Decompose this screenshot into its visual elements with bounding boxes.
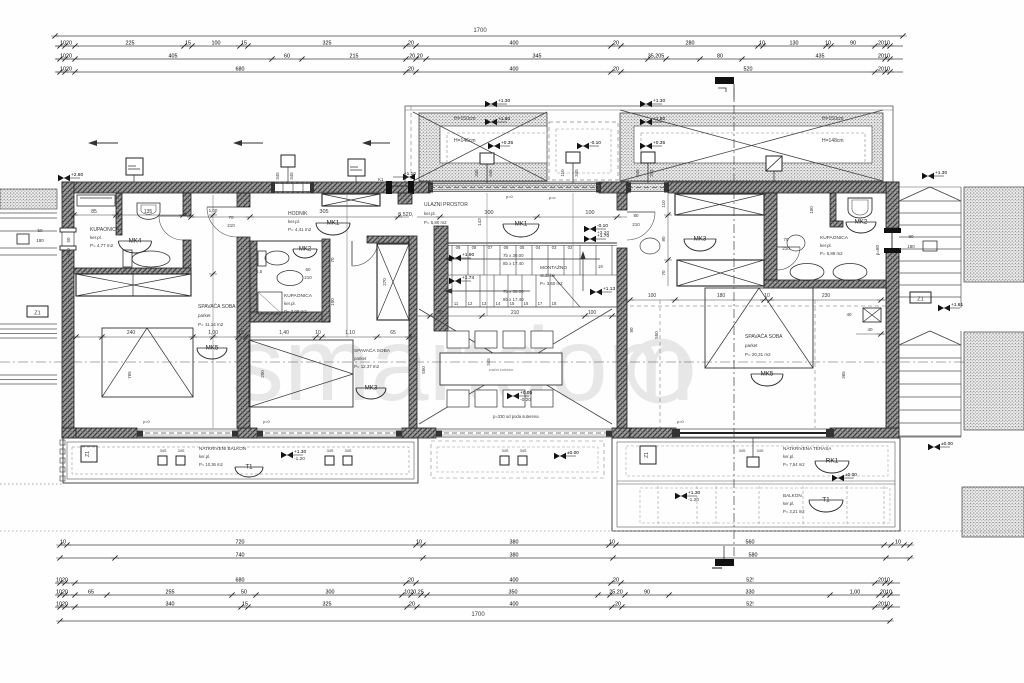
arrow west 2 xyxy=(233,140,263,146)
svg-text:HODNIK: HODNIK xyxy=(288,211,308,217)
svg-text:34S: 34S xyxy=(520,449,527,453)
svg-text:345: 345 xyxy=(275,172,280,180)
svg-text:19: 19 xyxy=(598,264,603,269)
svg-text:100: 100 xyxy=(585,210,594,216)
svg-text:+1.30: +1.30 xyxy=(653,98,665,104)
bedroom3 dim line xyxy=(626,293,886,303)
svg-text:80: 80 xyxy=(661,236,666,242)
svg-text:210: 210 xyxy=(782,246,790,251)
left neighbour hatched band xyxy=(0,189,57,209)
svg-text:10: 10 xyxy=(315,330,321,336)
MK5 bowl left xyxy=(197,345,227,360)
svg-text:40: 40 xyxy=(846,312,852,317)
svg-text:15: 15 xyxy=(238,330,244,336)
door W5 arc xyxy=(627,212,660,254)
svg-text:34S: 34S xyxy=(178,449,185,453)
svg-text:20: 20 xyxy=(613,577,619,583)
svg-text:90: 90 xyxy=(644,589,650,595)
svg-text:34S: 34S xyxy=(502,449,509,453)
svg-text:P= 4,41 m2: P= 4,41 m2 xyxy=(288,227,312,232)
floor drain box xyxy=(863,308,881,322)
svg-text:parket: parket xyxy=(745,343,758,348)
wall right xyxy=(886,182,899,438)
svg-text:P= 10,36 m2: P= 10,36 m2 xyxy=(199,462,224,467)
svg-text:400: 400 xyxy=(510,66,519,72)
svg-text:10: 10 xyxy=(895,539,901,545)
bed 2 xyxy=(249,340,353,407)
svg-text:1020: 1020 xyxy=(60,53,72,59)
svg-text:8b x 17.40: 8b x 17.40 xyxy=(503,261,524,266)
middle posts xyxy=(500,449,527,465)
right stairs flight 2 xyxy=(899,331,961,437)
roof middle dashed panel xyxy=(549,122,618,180)
svg-text:550: 550 xyxy=(421,366,426,374)
bathroom mid toilet xyxy=(258,251,289,266)
bathroom mid labels xyxy=(284,293,313,314)
svg-text:7b x 30.00: 7b x 30.00 xyxy=(503,289,524,294)
svg-text:200: 200 xyxy=(260,370,265,378)
svg-text:680: 680 xyxy=(236,66,245,72)
RK1 bowl xyxy=(815,458,849,474)
wardrobe right bottom xyxy=(677,260,764,286)
extension line x573 xyxy=(572,193,574,307)
svg-text:+1.70: +1.70 xyxy=(597,233,609,239)
svg-text:P= 11,14 m2: P= 11,14 m2 xyxy=(198,322,224,327)
svg-text:100: 100 xyxy=(809,206,814,214)
svg-text:60: 60 xyxy=(305,267,311,272)
guide dashed x660 xyxy=(659,300,661,428)
svg-text:52!: 52! xyxy=(746,577,754,583)
MK3 bowl bedroom2 xyxy=(356,385,386,400)
toilet nook partition xyxy=(830,193,843,227)
svg-text:80: 80 xyxy=(629,327,634,333)
left neighbour lines 3 xyxy=(0,375,57,384)
arrow west 3 xyxy=(362,140,390,146)
svg-text:34S: 34S xyxy=(327,449,334,453)
svg-text:04: 04 xyxy=(536,245,541,250)
svg-text:680: 680 xyxy=(236,577,245,583)
svg-text:zračni kolektor: zračni kolektor xyxy=(489,368,514,372)
bathroom mid bottom wall xyxy=(250,312,330,322)
svg-text:8b x 17.40: 8b x 17.40 xyxy=(503,297,524,302)
svg-text:06: 06 xyxy=(504,245,509,250)
svg-text:+1.80: +1.80 xyxy=(498,116,510,122)
svg-text:p=80: p=80 xyxy=(875,244,880,255)
T1 bowl balcony left xyxy=(235,465,263,478)
svg-text:325: 325 xyxy=(323,601,332,607)
svg-text:17: 17 xyxy=(538,301,543,306)
svg-text:1,10: 1,10 xyxy=(345,330,355,336)
svg-text:p=0: p=0 xyxy=(506,194,514,199)
svg-text:±0.00: ±0.00 xyxy=(567,450,579,456)
svg-text:10: 10 xyxy=(609,539,615,545)
roof elevation markers xyxy=(485,98,510,107)
svg-text:p=0: p=0 xyxy=(143,419,151,424)
svg-text:8,520,: 8,520, xyxy=(398,212,414,218)
svg-text:T1: T1 xyxy=(822,497,830,504)
svg-text:MK2: MK2 xyxy=(299,247,312,253)
svg-text:K1: K1 xyxy=(378,177,384,182)
svg-text:400: 400 xyxy=(510,577,519,583)
svg-text:345: 345 xyxy=(533,53,542,59)
svg-text:230: 230 xyxy=(822,293,831,299)
right neighbour block 1 xyxy=(964,187,1024,282)
svg-text:40: 40 xyxy=(867,327,873,332)
MK3 bowl right xyxy=(684,236,716,252)
svg-text:+1.13: +1.13 xyxy=(603,286,615,292)
svg-text:±0.00: ±0.00 xyxy=(845,472,857,478)
dotted separation line xyxy=(0,530,1024,532)
svg-text:100: 100 xyxy=(588,310,597,316)
door corridor to bedroom2 xyxy=(352,241,378,266)
bathroom1 sink xyxy=(137,203,160,219)
svg-text:20: 20 xyxy=(615,601,621,607)
right wardrobe dims xyxy=(661,194,672,286)
svg-text:parket: parket xyxy=(354,356,367,361)
bathroom mid sink xyxy=(277,271,303,286)
svg-text:MK1: MK1 xyxy=(515,221,528,228)
svg-text:210: 210 xyxy=(632,222,640,227)
bottom terrace door xyxy=(672,429,834,437)
balcony left outline xyxy=(63,438,418,483)
svg-text:300: 300 xyxy=(326,589,335,595)
bathroom right bottom wall xyxy=(764,280,886,288)
guide dashed x815 xyxy=(814,300,816,428)
MK1 bowl corridor xyxy=(316,220,350,236)
svg-text:p=330 od poda suterena: p=330 od poda suterena xyxy=(493,414,539,419)
left dotted line low xyxy=(0,483,62,485)
svg-text:70: 70 xyxy=(228,215,234,220)
svg-text:135: 135 xyxy=(144,209,153,215)
terrace dashed dividers xyxy=(640,486,890,525)
svg-text:H=146cm: H=146cm xyxy=(454,138,476,144)
section cut marker bottom xyxy=(712,546,734,568)
svg-text:BALKON: BALKON xyxy=(783,493,802,498)
svg-text:stubište: stubište xyxy=(540,273,556,278)
svg-text:345: 345 xyxy=(649,169,654,177)
bathroom1 door arc xyxy=(159,216,183,240)
chairs bottom xyxy=(447,390,553,407)
balcony left edge posts xyxy=(60,440,65,481)
svg-text:ker.pl.: ker.pl. xyxy=(820,243,832,248)
svg-text:1700: 1700 xyxy=(471,612,485,618)
bed 1 xyxy=(102,328,193,397)
svg-text:2010: 2010 xyxy=(878,40,890,46)
T1 bowl balkon xyxy=(809,497,843,513)
window top small xyxy=(271,183,314,193)
svg-text:-0.10: -0.10 xyxy=(590,140,601,146)
bathroom mid left wall xyxy=(250,241,257,322)
svg-text:18: 18 xyxy=(552,301,557,306)
svg-text:765: 765 xyxy=(127,371,132,379)
svg-text:550: 550 xyxy=(654,331,659,339)
balcony left posts 1 xyxy=(158,449,185,465)
roof window box with flag xyxy=(766,156,782,183)
svg-text:1020,25: 1020,25 xyxy=(404,589,424,595)
section line vertical xyxy=(733,88,735,556)
terrace labels xyxy=(783,446,832,467)
dining table xyxy=(440,353,562,385)
svg-text:ker.pl.: ker.pl. xyxy=(199,454,210,459)
toilet right xyxy=(848,198,872,218)
svg-text:+1.80: +1.80 xyxy=(653,116,665,122)
svg-text:14: 14 xyxy=(496,301,501,306)
svg-text:580: 580 xyxy=(749,552,758,558)
bathroom mid right wall xyxy=(322,239,330,322)
wardrobe right top xyxy=(675,194,764,215)
door right bath arc xyxy=(777,235,805,270)
wall bottom with windows xyxy=(62,428,899,438)
svg-text:225: 225 xyxy=(126,40,135,46)
bathroom1 right wall xyxy=(183,193,191,274)
balkon labels xyxy=(783,493,805,514)
svg-text:210: 210 xyxy=(511,310,520,316)
door right wall xyxy=(884,228,901,253)
svg-text:143: 143 xyxy=(477,218,482,226)
svg-text:+1.90: +1.90 xyxy=(462,252,474,258)
corridor labels xyxy=(288,211,312,232)
svg-text:P= 3,08 m2: P= 3,08 m2 xyxy=(284,309,307,314)
svg-text:H=150cm: H=150cm xyxy=(822,116,844,122)
svg-text:20: 20 xyxy=(408,66,414,72)
right neighbour block 2 xyxy=(964,332,1024,430)
arrow west 1 xyxy=(88,140,118,146)
svg-text:ker.pl.: ker.pl. xyxy=(783,501,794,506)
svg-text:7b x 30.00: 7b x 30.00 xyxy=(503,253,524,258)
svg-text:215: 215 xyxy=(350,53,359,59)
roof area outer outline xyxy=(405,106,893,182)
svg-text:70: 70 xyxy=(661,270,666,276)
svg-text:80: 80 xyxy=(717,53,723,59)
roof drain box 1 xyxy=(474,153,494,183)
svg-text:20: 20 xyxy=(409,601,415,607)
svg-text:P= 5,88 m2: P= 5,88 m2 xyxy=(820,251,843,256)
svg-text:210: 210 xyxy=(227,223,235,228)
bathroom1 dim 85/135 xyxy=(70,209,187,218)
svg-text:T1: T1 xyxy=(245,465,253,471)
svg-text:65: 65 xyxy=(88,589,94,595)
svg-text:MK5: MK5 xyxy=(206,345,219,352)
bedroom2 labels xyxy=(354,347,391,369)
bedroom3 labels xyxy=(745,333,783,357)
svg-text:34S: 34S xyxy=(739,449,746,453)
watermark smartdom xyxy=(232,307,694,423)
svg-text:325: 325 xyxy=(323,40,332,46)
window top 2 xyxy=(626,183,669,193)
svg-text:2010: 2010 xyxy=(878,66,890,72)
svg-text:90: 90 xyxy=(437,310,443,316)
svg-text:Z1: Z1 xyxy=(34,311,40,317)
svg-text:15: 15 xyxy=(241,40,247,46)
bathroom mid top line xyxy=(257,240,322,242)
bathroom1 bottom wall xyxy=(74,268,191,274)
svg-text:300: 300 xyxy=(484,210,493,216)
door to bedroom1 xyxy=(207,207,237,237)
svg-text:380: 380 xyxy=(510,552,519,558)
Z1 box terrace xyxy=(640,446,656,464)
svg-text:KUPAONICA: KUPAONICA xyxy=(90,227,120,233)
terrace right outline xyxy=(612,438,900,531)
svg-text:34S: 34S xyxy=(160,449,167,453)
stair dim line xyxy=(417,310,617,319)
svg-text:1020: 1020 xyxy=(60,40,72,46)
svg-text:07: 07 xyxy=(488,245,493,250)
svg-text:80: 80 xyxy=(633,213,639,218)
svg-text:1020: 1020 xyxy=(56,577,68,583)
wall W1 bedroom1/bedroom2 xyxy=(237,193,250,428)
svg-text:400: 400 xyxy=(510,40,519,46)
bathroom1 labels xyxy=(90,227,120,248)
svg-text:60: 60 xyxy=(284,53,290,59)
guide line x213 xyxy=(209,195,217,428)
stair labels xyxy=(503,253,603,302)
svg-text:15: 15 xyxy=(242,601,248,607)
svg-text:parket: parket xyxy=(198,313,211,318)
svg-text:70: 70 xyxy=(783,237,789,242)
balcony left label xyxy=(199,446,246,467)
svg-text:10: 10 xyxy=(759,40,765,46)
Z1 box right xyxy=(910,292,931,303)
svg-text:MK1: MK1 xyxy=(327,220,340,227)
svg-text:20,20: 20,20 xyxy=(409,53,423,59)
svg-text:SPAVAĆA SOBA: SPAVAĆA SOBA xyxy=(745,333,783,340)
svg-text:H=150cm: H=150cm xyxy=(454,116,476,122)
stair step numbers top xyxy=(456,245,573,250)
corridor dim line xyxy=(187,214,409,219)
svg-text:365: 365 xyxy=(841,371,846,379)
section cut marker top xyxy=(715,77,734,100)
Z1 box left xyxy=(27,306,48,317)
bedroom1 labels xyxy=(198,303,236,327)
svg-text:16: 16 xyxy=(524,301,529,306)
window left wall xyxy=(60,228,76,250)
svg-text:RK1: RK1 xyxy=(826,458,839,465)
svg-text:p=c: p=c xyxy=(549,195,556,200)
svg-text:50: 50 xyxy=(66,237,71,243)
svg-text:+1.30: +1.30 xyxy=(935,170,947,176)
svg-text:+1.74: +1.74 xyxy=(462,275,474,281)
MK5 bowl right xyxy=(751,371,783,387)
svg-text:P= 4,77 m2: P= 4,77 m2 xyxy=(90,243,114,248)
right bathroom labels xyxy=(820,235,849,256)
svg-text:ker.pl.: ker.pl. xyxy=(284,301,296,306)
svg-text:5,5: 5,5 xyxy=(256,269,263,274)
svg-text:1020: 1020 xyxy=(60,66,72,72)
svg-text:330: 330 xyxy=(746,589,755,595)
svg-text:80: 80 xyxy=(908,234,914,239)
svg-text:720: 720 xyxy=(236,539,245,545)
svg-text:MK5: MK5 xyxy=(761,371,774,378)
dim line rooms left xyxy=(72,330,417,340)
svg-text:350: 350 xyxy=(509,589,518,595)
svg-text:180: 180 xyxy=(717,293,726,299)
svg-text:±0.00: ±0.00 xyxy=(941,441,953,447)
svg-text:740: 740 xyxy=(236,552,245,558)
svg-text:ULAZNI PROSTOR: ULAZNI PROSTOR xyxy=(424,202,468,208)
wardrobe bedroom1 xyxy=(76,274,191,296)
guide line x347 xyxy=(346,195,348,337)
wall left xyxy=(62,182,74,438)
svg-text:345: 345 xyxy=(474,169,479,177)
svg-text:50: 50 xyxy=(37,228,43,233)
MK4 bowl xyxy=(119,238,152,253)
svg-text:05: 05 xyxy=(520,245,525,250)
svg-text:10: 10 xyxy=(825,40,831,46)
svg-text:08: 08 xyxy=(472,245,477,250)
svg-text:ker.pl.: ker.pl. xyxy=(424,211,436,216)
svg-text:MK3: MK3 xyxy=(694,236,707,243)
svg-text:1,00: 1,00 xyxy=(209,208,218,213)
svg-text:SPAVAĆA SOBA: SPAVAĆA SOBA xyxy=(354,347,391,354)
svg-text:SPAVAĆA SOBA: SPAVAĆA SOBA xyxy=(198,303,236,310)
svg-text:2010: 2010 xyxy=(878,577,890,583)
entry labels xyxy=(398,202,468,225)
svg-text:03: 03 xyxy=(552,245,557,250)
svg-text:52!: 52! xyxy=(746,601,754,607)
svg-text:340: 340 xyxy=(166,601,175,607)
terrace posts xyxy=(739,438,764,467)
svg-text:+0.35: +0.35 xyxy=(501,140,513,146)
bottom windows xyxy=(137,429,238,437)
svg-text:09: 09 xyxy=(456,245,461,250)
svg-text:+1.30: +1.30 xyxy=(688,490,700,496)
svg-text:110: 110 xyxy=(560,169,565,177)
chairs top xyxy=(447,331,553,348)
svg-text:90: 90 xyxy=(850,40,856,46)
svg-text:P= 3,21 m2: P= 3,21 m2 xyxy=(783,509,805,514)
center dash line horizontal xyxy=(0,361,1024,363)
svg-text:345: 345 xyxy=(574,169,579,177)
wall stub corridor right xyxy=(398,193,412,204)
svg-text:+0.35: +0.35 xyxy=(653,140,665,146)
wardrobe partition right wing xyxy=(764,193,777,288)
svg-text:345: 345 xyxy=(289,172,294,180)
top dimension block xyxy=(51,28,907,75)
right neighbour block 3 xyxy=(962,487,1024,537)
svg-text:345: 345 xyxy=(635,169,640,177)
svg-text:65: 65 xyxy=(390,330,396,336)
corridor wardrobe MK1 xyxy=(322,194,380,206)
svg-text:p=0: p=0 xyxy=(263,419,271,424)
svg-text:Z1: Z1 xyxy=(85,451,91,457)
dining room cross xyxy=(419,309,612,424)
svg-text:20: 20 xyxy=(613,40,619,46)
svg-text:305: 305 xyxy=(319,209,328,215)
svg-text:100: 100 xyxy=(212,40,221,46)
svg-text:+2.80: +2.80 xyxy=(71,172,83,178)
svg-text:+1.30: +1.30 xyxy=(294,449,306,455)
svg-text:P= 12,37 m2: P= 12,37 m2 xyxy=(354,364,380,369)
svg-text:520: 520 xyxy=(744,66,753,72)
svg-text:-0.10: -0.10 xyxy=(597,223,608,229)
svg-text:255: 255 xyxy=(166,589,175,595)
svg-text:110: 110 xyxy=(661,200,666,208)
svg-text:12: 12 xyxy=(468,301,473,306)
bathroom1 toilet xyxy=(123,250,170,267)
wall W5 central xyxy=(617,193,627,428)
bathroom1 partition xyxy=(116,193,122,235)
svg-text:240: 240 xyxy=(127,330,136,336)
bottom dimension block xyxy=(55,539,914,623)
svg-text:100: 100 xyxy=(330,298,335,306)
left neighbour lines 1 xyxy=(0,213,57,231)
svg-text:P= 20,31 m2: P= 20,31 m2 xyxy=(745,352,771,357)
svg-text:-1.20: -1.20 xyxy=(294,456,305,462)
svg-text:280: 280 xyxy=(686,40,695,46)
svg-text:-0.20: -0.20 xyxy=(520,397,531,403)
left neighbour window xyxy=(0,228,57,255)
svg-text:270: 270 xyxy=(382,278,387,286)
